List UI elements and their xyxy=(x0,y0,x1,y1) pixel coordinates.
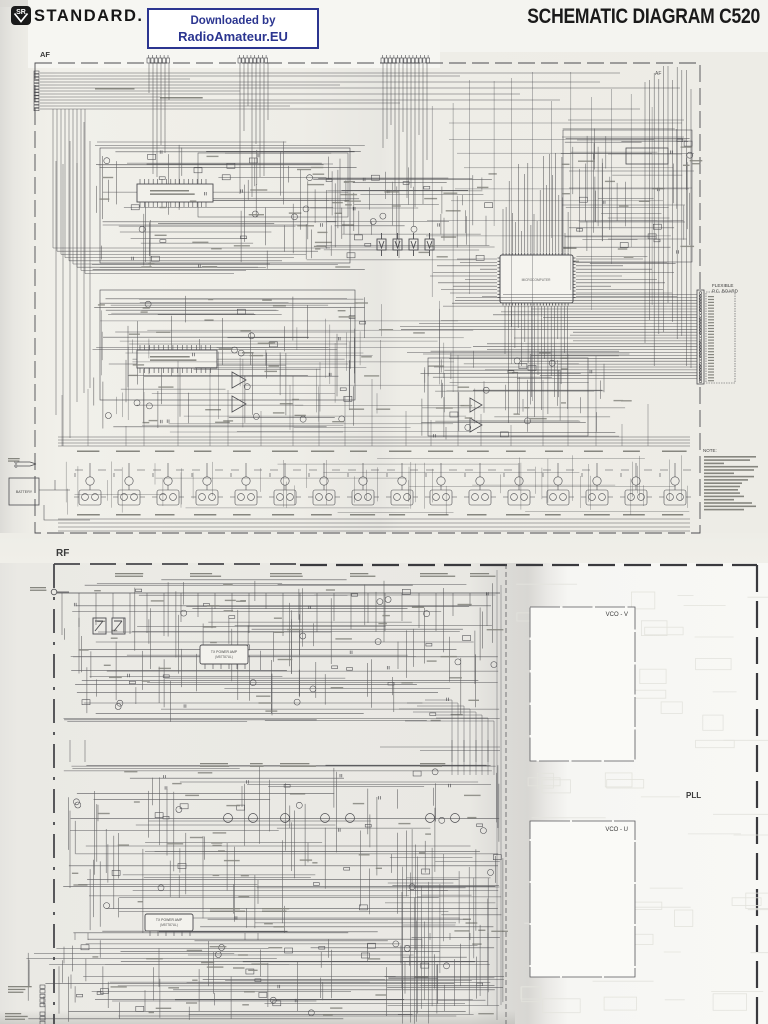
antenna connector xyxy=(51,589,69,595)
capacitor xyxy=(295,999,297,1002)
component block xyxy=(368,943,376,948)
capacitor xyxy=(387,666,389,669)
transistor xyxy=(117,700,123,706)
resistor xyxy=(577,229,583,232)
component block xyxy=(81,945,89,950)
transistor xyxy=(219,945,225,951)
resistor xyxy=(424,186,430,189)
flexible board outline xyxy=(706,292,735,383)
transistor xyxy=(455,659,461,665)
transistor xyxy=(525,418,531,424)
transistor xyxy=(404,946,410,952)
transistor xyxy=(393,941,399,947)
transistor xyxy=(300,416,306,422)
transistor xyxy=(238,350,244,356)
capacitor xyxy=(329,373,331,376)
capacitor xyxy=(278,985,280,988)
component block xyxy=(579,197,587,202)
resistor xyxy=(477,824,483,827)
wire mesh center xyxy=(301,167,495,260)
capacitor xyxy=(247,780,249,783)
transistor Q xyxy=(249,814,258,823)
transistor xyxy=(483,387,489,393)
wire nested corner routes xyxy=(53,109,330,274)
capacitor xyxy=(198,264,200,267)
component block xyxy=(155,813,163,818)
transistor xyxy=(444,963,450,969)
diode pair band1 xyxy=(93,618,125,634)
regulator stage 7 xyxy=(308,463,340,505)
resistor xyxy=(388,682,394,685)
capacitor xyxy=(438,223,440,226)
svg-text:NOTE:: NOTE: xyxy=(703,448,717,453)
resistor xyxy=(229,616,235,619)
component block xyxy=(131,205,139,210)
transistor xyxy=(300,633,306,639)
resistor xyxy=(347,668,353,671)
value labels xyxy=(92,943,493,1015)
resistor xyxy=(477,983,483,986)
ghost print right side xyxy=(516,584,768,1013)
IC U3 xyxy=(626,148,668,164)
transistor xyxy=(292,214,298,220)
regulator stage 13 xyxy=(542,463,574,505)
component block xyxy=(259,992,267,997)
transistor xyxy=(105,413,111,419)
svg-text:VCO - V: VCO - V xyxy=(606,612,628,618)
transistor xyxy=(104,158,110,164)
component block xyxy=(151,256,159,261)
value labels xyxy=(129,310,469,423)
transistor xyxy=(424,611,430,617)
block outline right-mid xyxy=(563,130,692,262)
svg-text:SR: SR xyxy=(16,9,26,16)
regulator stage 16 xyxy=(659,463,691,505)
transistor xyxy=(73,799,79,805)
note text block xyxy=(703,448,758,510)
resistor xyxy=(403,182,409,185)
transistor xyxy=(115,704,121,710)
transistor xyxy=(687,152,693,158)
resistor xyxy=(430,713,436,716)
capacitor xyxy=(165,786,167,789)
svg-text:AF: AF xyxy=(655,71,661,77)
svg-text:(M57787UL): (M57787UL) xyxy=(215,655,233,659)
transistor xyxy=(75,802,81,808)
component block xyxy=(101,989,109,994)
AF dashed border xyxy=(35,63,700,533)
op-amp A2 xyxy=(232,396,246,412)
capacitor xyxy=(132,257,134,260)
ext microphone connector xyxy=(40,1012,45,1024)
svg-text:PLL: PLL xyxy=(686,791,701,800)
capacitor xyxy=(128,674,130,677)
transistor xyxy=(249,333,255,339)
resistor xyxy=(160,240,166,243)
component block xyxy=(413,771,421,776)
component block xyxy=(237,805,245,810)
flexible board connector strip xyxy=(697,290,704,384)
component block xyxy=(371,175,379,180)
microcomputer U4 xyxy=(498,253,576,306)
resistor xyxy=(326,179,332,182)
capacitor xyxy=(590,370,592,373)
IC U1 DIP body xyxy=(137,179,213,207)
svg-text:STANDARD.: STANDARD. xyxy=(34,7,143,25)
resistor xyxy=(129,681,135,684)
component block xyxy=(249,158,257,163)
wire top-left label smudges xyxy=(95,88,135,90)
component block xyxy=(620,243,628,248)
TX power amp module xyxy=(200,645,248,669)
wire mesh RF band2 xyxy=(63,765,499,933)
ext power connector xyxy=(15,461,36,467)
svg-text:SCHEMATIC DIAGRAM C520: SCHEMATIC DIAGRAM C520 xyxy=(527,4,760,28)
transistor xyxy=(146,403,152,409)
resistor xyxy=(136,589,142,592)
transistor Q xyxy=(224,814,233,823)
svg-text:Downloaded by: Downloaded by xyxy=(191,15,277,27)
component block xyxy=(344,396,352,401)
capacitor xyxy=(184,704,186,707)
resistor xyxy=(319,947,325,950)
transistor xyxy=(380,213,386,219)
component block xyxy=(148,154,156,159)
resistor xyxy=(163,816,169,819)
regulator stage 4 xyxy=(191,463,223,505)
transistor xyxy=(232,347,238,353)
component block xyxy=(82,700,90,705)
transistor xyxy=(244,384,250,390)
resistor xyxy=(159,177,165,180)
resistor xyxy=(313,883,319,886)
capacitor xyxy=(241,189,243,192)
svg-text:(M57787UL): (M57787UL) xyxy=(160,923,178,927)
battery xyxy=(9,478,39,505)
wire band1-band2 connectors xyxy=(70,740,488,762)
svg-text:RF: RF xyxy=(56,548,69,559)
svg-text:FLEXIBLE: FLEXIBLE xyxy=(712,283,733,288)
component block xyxy=(485,203,493,208)
resistor xyxy=(365,243,371,246)
transistor xyxy=(409,884,415,890)
capacitor xyxy=(164,775,166,778)
wire mesh RF band3 xyxy=(26,939,494,1022)
component block xyxy=(493,855,501,860)
transistor Q xyxy=(346,814,355,823)
capacitor xyxy=(338,828,340,831)
transistor xyxy=(514,358,520,364)
resistor xyxy=(255,979,261,982)
capacitor xyxy=(447,698,449,701)
downloaded-by box xyxy=(148,9,318,48)
resistor xyxy=(203,604,209,607)
capacitor xyxy=(387,190,389,193)
component block xyxy=(285,948,293,953)
capacitor xyxy=(338,337,340,340)
resistor xyxy=(77,994,83,997)
component block xyxy=(273,1001,281,1006)
wire bus along separator xyxy=(497,570,501,1020)
component block xyxy=(347,253,355,258)
resistor xyxy=(677,139,683,142)
capacitor xyxy=(449,784,451,787)
op-amp A4 xyxy=(470,418,482,432)
svg-text:RadioAmateur.EU: RadioAmateur.EU xyxy=(178,29,288,44)
resistor xyxy=(508,371,514,374)
transistor xyxy=(294,699,300,705)
transistor xyxy=(158,885,164,891)
capacitor xyxy=(379,796,381,799)
wire mesh right-mid xyxy=(561,128,694,263)
transistor xyxy=(303,206,309,212)
resistor xyxy=(163,675,169,678)
resistor xyxy=(426,643,432,646)
component block xyxy=(242,645,250,650)
capacitor xyxy=(363,178,365,181)
title SCHEMATIC DIAGRAM C520 xyxy=(527,4,760,28)
component block xyxy=(222,175,230,180)
transistor xyxy=(252,211,258,217)
component block xyxy=(476,255,484,260)
component block xyxy=(237,309,245,314)
value labels xyxy=(79,584,504,721)
transistor xyxy=(296,802,302,808)
capacitor xyxy=(167,420,169,423)
regulator stage 2 xyxy=(113,463,145,505)
component block xyxy=(684,141,692,146)
capacitor xyxy=(340,774,342,777)
component block xyxy=(463,636,471,641)
component block xyxy=(354,235,362,240)
transistor xyxy=(385,597,391,603)
capacitor xyxy=(309,606,311,609)
component block xyxy=(362,953,370,958)
regulator stage 1 xyxy=(74,463,106,505)
VCO-V box xyxy=(530,607,635,761)
transistor Q xyxy=(426,814,435,823)
capacitor xyxy=(603,201,605,204)
resistor xyxy=(352,594,358,597)
value labels xyxy=(307,173,497,257)
transistor xyxy=(310,686,316,692)
capacitor xyxy=(657,188,659,191)
wire flexible board feed lines xyxy=(400,295,697,379)
wire mesh mid-left block2 xyxy=(93,296,365,429)
wire long verticals right half xyxy=(426,72,689,401)
op-amp A3 xyxy=(470,398,482,412)
RF border top heavy dashed xyxy=(300,564,757,566)
transistor Q xyxy=(451,814,460,823)
wire bus top fanout xyxy=(40,73,680,109)
top connector J3 xyxy=(381,55,430,63)
TX power module 2 xyxy=(145,914,193,936)
regulator stage 15 xyxy=(620,463,652,505)
component block xyxy=(194,168,202,173)
transistor xyxy=(465,424,471,430)
wire left vertical bundle xyxy=(56,122,90,446)
transistor xyxy=(411,226,417,232)
wire verticals from top connectors xyxy=(149,63,427,258)
component block xyxy=(450,412,458,417)
capacitor xyxy=(321,223,323,226)
component block xyxy=(269,342,277,347)
RF border left chain line xyxy=(53,564,55,1024)
component block xyxy=(178,864,186,869)
transistor xyxy=(375,639,381,645)
transistor xyxy=(134,400,140,406)
RF vertical dashed separator xyxy=(505,564,507,1024)
transistor xyxy=(253,413,259,419)
block outline mid-left xyxy=(100,290,355,400)
capacitor xyxy=(486,592,488,595)
resistor xyxy=(97,992,103,995)
component block xyxy=(500,432,508,437)
svg-text:MICROCOMPUTER: MICROCOMPUTER xyxy=(522,278,552,282)
value labels xyxy=(428,352,631,419)
component block xyxy=(180,804,188,809)
wire bus below control row xyxy=(58,519,690,531)
VCO-U box xyxy=(530,821,635,977)
resistor xyxy=(240,236,246,239)
regulator stage 6 xyxy=(269,463,301,505)
label row RF band2 xyxy=(200,763,228,764)
component block xyxy=(359,905,367,910)
transistor xyxy=(339,416,345,422)
capacitor xyxy=(257,154,259,157)
wire drops into control row xyxy=(62,354,648,446)
wire mesh PLL unit area xyxy=(421,351,630,440)
component block xyxy=(421,963,429,968)
wire band2-band3 connectors xyxy=(75,933,488,940)
resistor xyxy=(360,321,366,324)
top connector J1 xyxy=(147,55,170,63)
transistor xyxy=(432,769,438,775)
svg-text:AF: AF xyxy=(40,50,50,59)
capacitor xyxy=(677,250,679,253)
svg-text:BATTERY: BATTERY xyxy=(16,490,33,494)
resistor xyxy=(340,388,346,391)
transistor xyxy=(145,301,151,307)
component block xyxy=(422,869,430,874)
transistor xyxy=(308,1010,314,1016)
regulator stage 9 xyxy=(386,463,418,505)
wire bus above control row xyxy=(58,437,690,446)
capacitor xyxy=(74,603,76,606)
component block xyxy=(246,969,254,974)
component block xyxy=(227,163,235,168)
wire RF main signal path xyxy=(57,592,500,594)
transistor Q xyxy=(321,814,330,823)
resistor xyxy=(284,785,290,788)
capacitor xyxy=(160,420,162,423)
transistor xyxy=(104,903,110,909)
component block xyxy=(402,589,410,594)
component block xyxy=(519,364,527,369)
transistor xyxy=(488,869,494,875)
wire right-side vertical bundle to flexible board xyxy=(562,66,694,368)
transistor xyxy=(176,807,182,813)
component block xyxy=(528,366,536,371)
transistor xyxy=(307,175,313,181)
transistor xyxy=(250,680,256,686)
capacitor xyxy=(350,651,352,654)
component block xyxy=(653,224,661,229)
wire bus band gap xyxy=(380,747,500,751)
capacitor xyxy=(193,353,195,356)
svg-text:P.C. BOARD: P.C. BOARD xyxy=(712,289,739,294)
IC U2 DIP body xyxy=(137,345,217,373)
resistor xyxy=(349,316,355,319)
transistor xyxy=(377,599,383,605)
regulator stage 5 xyxy=(230,463,262,505)
value labels xyxy=(562,146,703,262)
regulator stage 11 xyxy=(464,463,496,505)
transistor Q xyxy=(281,814,290,823)
wire nested corner band gap xyxy=(399,700,494,775)
regulator stage 3 xyxy=(152,463,184,505)
resistor xyxy=(344,868,350,871)
attenuator symbols row xyxy=(377,233,386,256)
left edge connector pins xyxy=(34,71,39,111)
component block xyxy=(112,870,120,875)
top connector J2 xyxy=(238,55,268,63)
wire fanout from microcomputer xyxy=(430,153,677,423)
ext speaker connector xyxy=(40,985,45,1007)
capacitor xyxy=(235,916,237,919)
transistor xyxy=(215,952,221,958)
capacitor xyxy=(434,434,436,437)
component block xyxy=(136,1006,144,1011)
wire mesh RF right of separator xyxy=(385,845,505,1024)
transistor xyxy=(370,219,376,225)
transistor xyxy=(181,610,187,616)
block outline PLL unit xyxy=(428,358,588,436)
resistor xyxy=(332,666,338,669)
Standard logo diamond xyxy=(11,6,31,25)
label row RF band1 xyxy=(115,573,143,574)
RF border right heavy dashed xyxy=(756,565,758,1024)
block outline upper-left inner xyxy=(198,153,348,217)
wire battery to row xyxy=(39,480,90,520)
capacitor xyxy=(670,151,672,154)
value labels xyxy=(98,299,368,423)
op-amp A1 xyxy=(232,372,246,388)
resistor xyxy=(654,239,660,242)
resistor xyxy=(365,824,371,827)
wire mesh control row fill xyxy=(66,455,689,515)
regulator stage 10 xyxy=(425,463,457,505)
capacitor xyxy=(353,207,355,210)
svg-text:TX POWER AMP: TX POWER AMP xyxy=(211,650,238,654)
wire mesh below center xyxy=(100,301,474,432)
transistor xyxy=(139,226,145,232)
transistor xyxy=(491,662,497,668)
svg-text:TX POWER AMP: TX POWER AMP xyxy=(156,918,183,922)
regulator stage 8 xyxy=(347,463,379,505)
value labels xyxy=(99,156,357,268)
wire mesh RF band1 xyxy=(64,580,500,722)
RF border top thin xyxy=(54,563,300,565)
transistor xyxy=(480,828,486,834)
transistor xyxy=(439,817,445,823)
capacitor xyxy=(160,150,162,153)
transistor xyxy=(270,997,276,1003)
regulator stage 14 xyxy=(581,463,613,505)
capacitor xyxy=(204,192,206,195)
component block xyxy=(648,234,656,239)
regulator stage 12 xyxy=(503,463,535,505)
